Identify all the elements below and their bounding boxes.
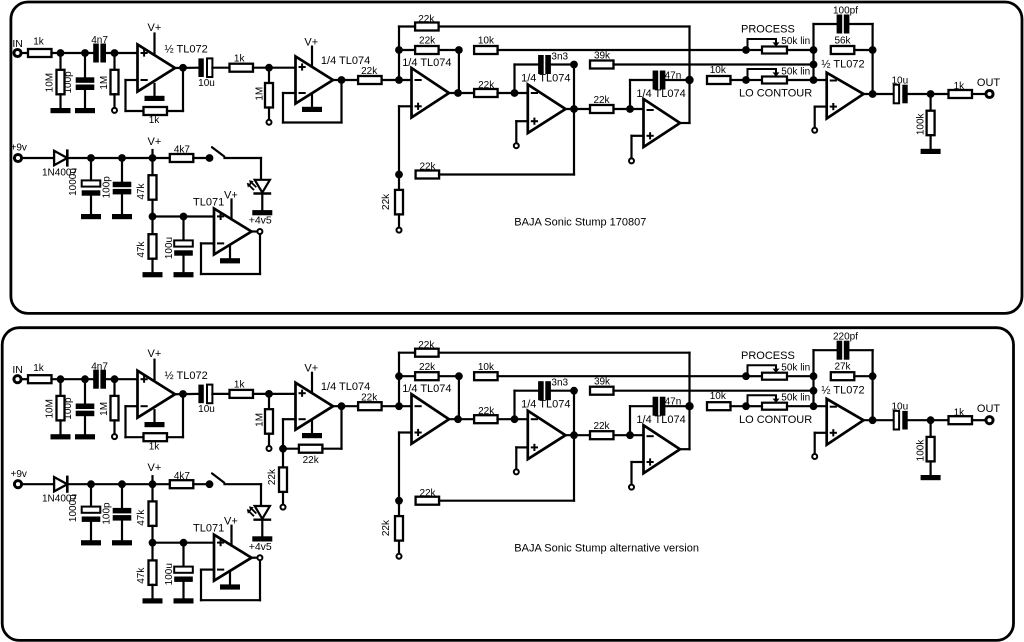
(panel 1) wire [126, 110, 144, 112]
(panel 2) junction [149, 539, 157, 547]
(panel 1) wire [814, 107, 816, 128]
(panel 1) capacitor 10u [198, 58, 212, 77]
(panel 2) junction [395, 497, 403, 505]
(panel 2) resistor 22k feedback [299, 445, 323, 453]
(panel 2) wire [498, 375, 747, 377]
(panel 2) wire [268, 434, 270, 446]
(panel 2) wire [439, 352, 690, 354]
(panel 1) wire [399, 49, 415, 51]
(panel 1) wire [151, 259, 153, 273]
svg-text:TL071: TL071 [193, 523, 224, 535]
(panel 2) wire [458, 376, 460, 419]
(panel 1) wire [871, 24, 873, 94]
(panel 1) wire [630, 136, 632, 159]
(panel 2) wire [498, 418, 528, 420]
(panel 1) resistor 100k [927, 111, 935, 136]
(panel 1) wire [439, 173, 574, 175]
(panel 2) wire [908, 419, 949, 421]
(panel 1) junction [570, 105, 578, 113]
(panel 2) ground [921, 475, 941, 480]
(panel 2) junction [57, 375, 65, 383]
(panel 1) wire [516, 120, 528, 122]
(panel 1) capacitor 100pf [837, 15, 850, 34]
svg-text:100p: 100p [102, 502, 113, 525]
svg-text:10u: 10u [198, 78, 215, 89]
(panel 2) wire [283, 448, 298, 450]
(panel 2) wire [787, 375, 814, 377]
(panel 2) wire [90, 522, 92, 540]
(panel 1) wire [113, 94, 115, 108]
(panel 1) wire [151, 217, 153, 235]
panel 2 border [2, 328, 1013, 641]
(panel 2) resistor 1k input [28, 375, 52, 383]
(panel 2) junction [111, 375, 119, 383]
(panel 2) resistor 27k [831, 372, 855, 380]
svg-text:1k: 1k [234, 380, 246, 391]
svg-text:47k: 47k [136, 182, 147, 199]
(panel 2) junction [927, 416, 935, 424]
(panel 2) wire [439, 375, 459, 377]
(panel 1) wire [84, 90, 86, 108]
(panel 2) resistor 10k [707, 402, 731, 410]
(panel 2) op-amp U4 1/4 TL074 [528, 411, 566, 460]
(panel 2) wire [151, 484, 153, 501]
(panel 2) wire [193, 483, 209, 485]
(panel 2) wire [59, 420, 61, 434]
(panel 2) wire [399, 431, 412, 433]
(panel 1) capacitor 100u [174, 240, 193, 255]
(panel 2) wire [261, 520, 263, 536]
(panel 2) wire [398, 433, 400, 501]
(panel 1) V+ stub [151, 150, 153, 158]
svg-text:V+: V+ [304, 363, 318, 375]
(panel 1) resistor 39k [590, 61, 614, 69]
(panel 2) wire [812, 350, 814, 406]
(panel 2) wire [573, 391, 575, 436]
(panel 2) wire [200, 570, 202, 601]
(panel 2) wire [22, 483, 54, 485]
(panel 1) pad terminal [112, 108, 117, 113]
(panel 2) wire [614, 390, 814, 392]
(panel 1) junction [810, 61, 818, 69]
(panel 2) diode 1N4007 [54, 476, 67, 493]
(panel 1) junction [869, 46, 877, 54]
(panel 2) op-amp TL071 [214, 535, 252, 581]
svg-text:10u: 10u [198, 404, 215, 415]
(panel 1) V+ stub [153, 34, 155, 55]
(panel 2) resistor 22k [590, 431, 614, 439]
(panel 2) wire [225, 483, 262, 485]
(panel 1) wire [498, 49, 747, 51]
svg-text:22k: 22k [419, 488, 436, 499]
(panel 1) wire [333, 79, 358, 81]
(panel 2) wire [121, 521, 123, 541]
(panel 1) wire [182, 217, 184, 241]
(panel 1) junction [118, 154, 126, 162]
svg-text:½ TL072: ½ TL072 [165, 44, 208, 56]
(panel 2) wire [688, 406, 690, 449]
(panel 2) resistor 47k [149, 560, 157, 585]
(panel 1) wire [261, 194, 263, 210]
(panel 2) wire [282, 449, 284, 468]
(panel 1) input terminal IN [14, 49, 21, 56]
(panel 2) pad terminal [281, 505, 286, 510]
svg-text:1M: 1M [99, 76, 110, 90]
(panel 1) wire [126, 79, 138, 81]
(panel 1) junction [57, 49, 65, 57]
(panel 1) wire [268, 68, 270, 83]
svg-text:1000u: 1000u [68, 494, 79, 522]
(panel 2) resistor 22k [279, 467, 287, 492]
(panel 1) junction [454, 89, 462, 97]
(panel 1) wire [260, 158, 262, 180]
(panel 1) junction [265, 64, 273, 72]
svg-text:V+: V+ [148, 136, 162, 148]
svg-text:1k: 1k [33, 363, 45, 374]
svg-text:+4v5: +4v5 [249, 541, 272, 553]
(panel 1) wire [59, 53, 61, 70]
(panel 1) resistor 22k [416, 171, 440, 179]
(panel 1) op-amp U5 1/4 TL074 [644, 99, 681, 147]
(panel 1) junction [810, 46, 818, 54]
(panel 1) wire [399, 105, 412, 107]
(panel 2) junction node [395, 402, 403, 410]
(panel 2) pad terminal [812, 454, 817, 459]
(panel 1) wire [854, 49, 872, 51]
(panel 1) pad terminal [514, 143, 519, 148]
(panel 1) junction [927, 90, 935, 98]
(panel 1) potentiometer PROCESS 50k [748, 39, 788, 54]
(panel 2) wire [515, 447, 517, 469]
(panel 2) wire [854, 375, 872, 377]
(panel 1) resistor 1k [230, 64, 254, 72]
(panel 1) resistor 1k input [28, 49, 52, 57]
(panel 2) capacitor 47n [653, 397, 666, 416]
svg-text:50k lin: 50k lin [781, 66, 810, 77]
(panel 1) capacitor 100p [113, 182, 132, 195]
(panel 1) wire [573, 109, 575, 175]
(panel 2) wire [68, 483, 170, 485]
svg-text:39k: 39k [594, 50, 611, 61]
svg-text:LO CONTOUR: LO CONTOUR [739, 88, 812, 100]
(panel 1) junction [570, 61, 578, 69]
(panel 1) wire [124, 80, 126, 111]
svg-text:10k: 10k [710, 391, 727, 402]
(panel 2) potentiometer PROCESS 50k [748, 365, 788, 380]
(panel 2) terminal +4v5 [257, 555, 262, 560]
(panel 2) ground [220, 584, 240, 589]
(panel 1) wire [167, 110, 183, 112]
svg-text:+9v: +9v [11, 469, 27, 480]
(panel 1) wire [812, 24, 814, 80]
(panel 1) junction [81, 49, 89, 57]
(panel 2) V+ stub [153, 360, 155, 381]
(panel 1) capacitor 100p [76, 77, 95, 90]
(panel 1) pad terminal [812, 128, 817, 133]
(panel 2) wire [268, 394, 270, 409]
(panel 2) terminal +9v [14, 481, 21, 488]
(panel 1) ground [302, 107, 322, 112]
(panel 1) wire [849, 23, 872, 25]
(panel 1) wire [730, 79, 746, 81]
svg-text:22k: 22k [478, 80, 495, 91]
(panel 1) wire [665, 79, 689, 81]
(panel 2) resistor 1k feedback [144, 433, 168, 441]
(panel 1) resistor 10k [707, 76, 731, 84]
svg-text:V+: V+ [304, 36, 318, 48]
svg-text:½ TL072: ½ TL072 [821, 58, 864, 70]
svg-text:50k lin: 50k lin [781, 362, 810, 373]
(panel 1) diode 1N4007 [54, 149, 67, 166]
svg-text:LO CONTOUR: LO CONTOUR [739, 414, 812, 426]
(panel 2) junction [742, 402, 750, 410]
svg-text:V+: V+ [148, 348, 162, 360]
(panel 1) wire [439, 25, 690, 27]
(panel 1) wire [382, 79, 412, 81]
(panel 2) capacitor 10u [198, 385, 212, 404]
(panel 1) wire [399, 25, 415, 27]
(panel 2) ground [302, 433, 322, 438]
(panel 2) wire [229, 572, 231, 584]
(panel 1) junction [338, 76, 346, 84]
svg-text:1/4 TL074: 1/4 TL074 [521, 399, 570, 411]
(panel 2) wire [182, 394, 184, 437]
(panel 1) ground [75, 108, 95, 113]
svg-text:½ TL072: ½ TL072 [821, 385, 864, 397]
(panel 1) wire [439, 49, 459, 51]
svg-text:4k7: 4k7 [174, 145, 191, 156]
svg-text:1k: 1k [954, 407, 966, 418]
(panel 2) pad terminal [514, 469, 519, 474]
(panel 1) wire [90, 158, 92, 180]
(panel 1) wire [153, 215, 215, 217]
(panel 2) output terminal OUT [986, 417, 993, 424]
(panel 2) wire [815, 432, 827, 434]
(panel 1) pad terminal [629, 158, 634, 163]
(panel 1) V+ stub [311, 47, 313, 66]
(panel 1) wire [201, 242, 214, 244]
(panel 1) wire [864, 93, 894, 95]
(panel 1) wire [458, 50, 460, 93]
(panel 1) op-amp U4 1/4 TL074 [528, 85, 566, 134]
(panel 1) wire [515, 121, 517, 143]
(panel 2) resistor 22k [415, 349, 439, 357]
svg-text:BAJA Sonic Stump alternative v: BAJA Sonic Stump alternative version [514, 543, 699, 555]
svg-text:1/4 TL074: 1/4 TL074 [402, 57, 451, 69]
svg-text:10M: 10M [44, 399, 55, 418]
(panel 1) capacitor 3n3 [538, 55, 551, 74]
(panel 1) wire [182, 68, 184, 111]
(panel 2) op-amp U1 1/2 TL072 [138, 371, 176, 418]
(panel 2) wire [849, 349, 872, 351]
(panel 2) wire [113, 420, 115, 434]
svg-text:10M: 10M [44, 73, 55, 92]
(panel 2) wire [153, 410, 155, 422]
svg-text:22k: 22k [478, 406, 495, 417]
(panel 2) wire [259, 561, 261, 600]
(panel 2) wire [340, 406, 342, 449]
(panel 1) ground [145, 96, 165, 101]
(panel 2) wire [972, 419, 985, 421]
svg-text:50k lin: 50k lin [781, 393, 810, 404]
(panel 1) wire [121, 195, 123, 215]
(panel 1) wire [153, 84, 155, 96]
(panel 2) junction [810, 372, 818, 380]
(panel 1) wire [21, 52, 28, 54]
(panel 1) pad terminal [397, 228, 402, 233]
(panel 2) resistor 100k [927, 437, 935, 462]
(panel 1) wire [22, 157, 54, 159]
svg-text:47k: 47k [136, 567, 147, 584]
(panel 2) op-amp U2 1/4 TL074 [296, 383, 334, 430]
(panel 2) wire [814, 433, 816, 454]
(panel 2) wire [630, 462, 632, 485]
(panel 1) wire [632, 135, 644, 137]
svg-text:1000u: 1000u [68, 168, 79, 196]
(panel 2) resistor 1M [111, 396, 119, 421]
(panel 1) V+ stub [230, 200, 232, 220]
(panel 2) wire [151, 526, 153, 543]
(panel 2) wire [52, 378, 94, 380]
(panel 1) wire [200, 243, 202, 274]
(panel 1) wire [398, 214, 400, 227]
(panel 1) resistor 22k [415, 23, 439, 31]
(panel 1) wire [787, 49, 814, 51]
svg-text:39k: 39k [594, 377, 611, 388]
svg-text:1k: 1k [33, 37, 45, 48]
(panel 1) op-amp U3 1/4 TL074 [412, 68, 450, 118]
svg-text:47k: 47k [136, 240, 147, 257]
(panel 1) wire [225, 157, 262, 159]
svg-text:1k: 1k [954, 81, 966, 92]
(panel 1) resistor 1k feedback [144, 107, 168, 115]
(panel 1) resistor 1k output [949, 90, 973, 98]
svg-text:1/4 TL074: 1/4 TL074 [636, 414, 685, 426]
(panel 2) wire [573, 435, 575, 501]
svg-text:1/4 TL074: 1/4 TL074 [636, 88, 685, 100]
(panel 2) wire [124, 406, 126, 437]
(panel 2) junction [206, 480, 214, 488]
(panel 1) capacitor 1000u [82, 180, 101, 195]
(panel 2) wire [730, 405, 746, 407]
(panel 1) wire [193, 157, 209, 159]
(panel 2) wire [282, 492, 284, 505]
(panel 1) wire [59, 94, 61, 108]
(panel 2) wire [151, 585, 153, 599]
svg-text:1/4 TL074: 1/4 TL074 [321, 55, 370, 67]
(panel 1) junction node [685, 76, 693, 84]
(panel 2) wire [253, 393, 296, 395]
(panel 2) wire [515, 390, 539, 392]
svg-text:PROCESS: PROCESS [741, 350, 795, 362]
(panel 2) resistor 1k [230, 390, 254, 398]
(panel 2) wire [153, 542, 215, 544]
(panel 2) wire [864, 419, 894, 421]
(panel 2) resistor 22k [395, 516, 403, 541]
(panel 2) wire [665, 405, 689, 407]
(panel 2) wire [929, 420, 931, 437]
(panel 1) resistor 10M [57, 70, 65, 95]
(panel 2) junction [570, 387, 578, 395]
(panel 1) wire [398, 106, 400, 174]
(panel 1) resistor 4k7 [170, 154, 194, 162]
(panel 1) wire [573, 65, 575, 110]
(panel 1) wire [814, 23, 838, 25]
(panel 1) op-amp TL071 [214, 209, 252, 255]
(panel 2) junction [118, 480, 126, 488]
(panel 2) wire [399, 352, 415, 354]
(panel 1) terminal +4v5 [257, 229, 262, 234]
(panel 1) wire [182, 256, 184, 272]
(panel 1) wire [90, 196, 92, 214]
svg-text:100k: 100k [915, 439, 926, 462]
(panel 2) V+ stub [151, 476, 153, 484]
(panel 1) junction [626, 105, 634, 113]
(panel 2) capacitor 100p [113, 508, 132, 521]
(panel 1) resistor 47k [149, 234, 157, 259]
(panel 2) ground [252, 536, 272, 541]
(panel 1) resistor 22k [395, 190, 403, 215]
(panel 2) capacitor 3n3 [538, 381, 551, 400]
(panel 2) resistor 10M [57, 396, 65, 421]
(panel 1) wire [201, 273, 260, 275]
svg-text:V+: V+ [224, 189, 238, 201]
(panel 2) wire [283, 418, 296, 420]
(panel 2) junction [81, 375, 89, 383]
(panel 2) wire [632, 461, 644, 463]
svg-text:10k: 10k [710, 65, 727, 76]
svg-text:1/4 TL074: 1/4 TL074 [321, 381, 370, 393]
(panel 1) capacitor 4n7 [93, 44, 106, 63]
svg-text:22k: 22k [381, 193, 392, 210]
(panel 1) ground [252, 210, 272, 215]
svg-text:10u: 10u [891, 402, 908, 413]
(panel 2) wire [398, 353, 400, 407]
(panel 2) wire [175, 393, 198, 396]
svg-text:3n3: 3n3 [551, 378, 568, 389]
(panel 2) capacitor 10u output [894, 411, 908, 430]
(panel 2) junction [869, 372, 877, 380]
(panel 1) resistor 22k [415, 46, 439, 54]
svg-text:100p: 100p [102, 176, 113, 199]
svg-text:1M: 1M [254, 413, 265, 427]
(panel 1) ground [112, 214, 132, 219]
(panel 2) ground [51, 434, 71, 439]
(panel 2) V+ stub [311, 373, 313, 392]
(panel 2) wire [201, 568, 214, 570]
(panel 1) wire [551, 63, 574, 65]
(panel 2) junction node [685, 402, 693, 410]
(panel 1) junction [179, 64, 187, 72]
(panel 2) pad terminal [267, 446, 272, 451]
svg-text:22k: 22k [361, 66, 378, 77]
(panel 2) pad terminal [629, 485, 634, 490]
(panel 2) ground [112, 540, 132, 545]
(panel 1) wire [52, 52, 94, 54]
(panel 2) junction [626, 431, 634, 439]
(panel 2) op-amp U6 1/2 TL072 [827, 399, 864, 445]
(panel 2) resistor 10k [474, 372, 498, 380]
(panel 1) wire [908, 93, 949, 95]
(panel 1) junction [810, 76, 818, 84]
(panel 1) junction [742, 76, 750, 84]
(panel 1) ground [143, 272, 163, 277]
(panel 1) junction V+ [149, 154, 157, 162]
(panel 1) capacitor 47n [653, 71, 666, 90]
(panel 2) wire [126, 405, 138, 407]
(panel 1) junction [395, 46, 403, 54]
svg-text:22k: 22k [418, 340, 435, 351]
